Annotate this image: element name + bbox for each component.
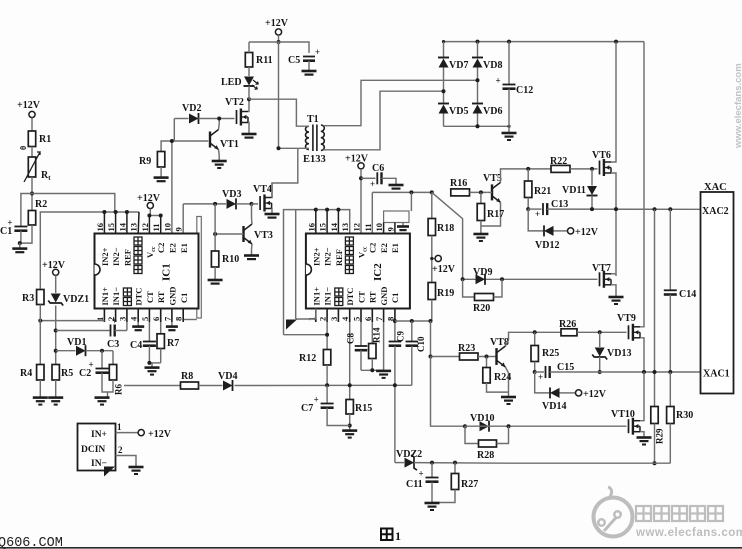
pin number 3 (IC1 bottom) — [117, 317, 127, 321]
svg-text:C5: C5 — [288, 55, 300, 66]
caption figure 1 — [381, 529, 401, 544]
svg-text:R21: R21 — [534, 186, 551, 197]
wire pin6 to R14 — [371, 322, 373, 344]
wire VT7 drain — [611, 273, 616, 275]
pin number 13 (IC2 top) — [340, 223, 350, 232]
svg-text:R4: R4 — [20, 368, 32, 379]
node C11 top — [430, 461, 434, 465]
capacitor C5 — [288, 47, 320, 66]
wire VT9 source — [640, 338, 644, 372]
svg-text:9: 9 — [385, 227, 395, 231]
svg-text:R7: R7 — [167, 338, 179, 349]
svg-text:10: 10 — [374, 223, 384, 232]
wire VT1 collector — [218, 119, 221, 130]
wire VT1 emitter — [218, 150, 221, 161]
pin number 8 (IC2 bottom) — [385, 317, 395, 321]
wire VD10 feed — [431, 357, 466, 427]
svg-text:C3: C3 — [107, 339, 119, 350]
resistor R18 — [428, 219, 454, 236]
capacitor C13 — [535, 199, 568, 219]
node IC2 pin16 bus — [314, 208, 318, 212]
node VD1/C2 — [100, 349, 104, 353]
svg-text:C10: C10 — [416, 336, 426, 352]
svg-text:VD8: VD8 — [483, 60, 502, 71]
wire VT7 gate row — [463, 278, 598, 280]
wire C14 col — [669, 209, 671, 289]
capacitor C2 — [79, 360, 109, 380]
ground (VT3) — [244, 256, 259, 260]
ground (DCIN) — [129, 467, 144, 474]
wire — [349, 414, 351, 430]
wire — [554, 230, 568, 232]
pin number 6 (IC2 bottom) — [363, 317, 373, 321]
resistor R10 — [211, 251, 239, 267]
svg-text:13: 13 — [129, 223, 139, 232]
caption Q606.COM — [0, 536, 63, 549]
watermark logo — [594, 487, 633, 537]
ground (IC1 pin4) — [132, 327, 144, 331]
svg-text:IN2−: IN2− — [323, 247, 333, 266]
svg-text:C4: C4 — [130, 340, 142, 351]
wire R30 col — [669, 372, 671, 407]
svg-text:C13: C13 — [551, 199, 568, 210]
wire pin 4 stub (IC1 bottom) — [137, 309, 139, 323]
resistor R26 — [559, 319, 577, 336]
svg-text:IN2−: IN2− — [111, 247, 121, 266]
svg-text:VD6: VD6 — [483, 106, 502, 117]
svg-text:R16: R16 — [450, 178, 467, 189]
wire T1 primary top to VT2 — [249, 99, 309, 126]
svg-text:θ: θ — [19, 146, 28, 150]
svg-text:R10: R10 — [222, 254, 239, 265]
resistor R15 — [346, 400, 372, 415]
wire pin 3 stub (IC2 bottom) — [337, 309, 339, 323]
ground (pin7 GND) — [376, 371, 391, 378]
node R23 left — [429, 355, 433, 359]
svg-text:R29: R29 — [655, 428, 665, 444]
wire — [214, 267, 216, 280]
svg-text:13: 13 — [340, 223, 350, 232]
transistor VT9 (MOSFET) — [617, 313, 640, 341]
svg-text:11: 11 — [363, 223, 373, 231]
transistor VT6 (MOSFET) — [592, 150, 611, 176]
wire — [248, 42, 250, 70]
svg-text:+12V: +12V — [42, 260, 66, 271]
wire — [308, 61, 310, 71]
capacitor C10 — [406, 336, 427, 352]
node C15 left — [533, 370, 537, 374]
svg-text:DTC: DTC — [345, 288, 355, 306]
wire +12V to pins 12,11 — [149, 209, 160, 216]
wire — [443, 114, 445, 127]
transistor VT7 (MOSFET) — [592, 263, 611, 288]
wire pin14 stub — [337, 210, 339, 234]
svg-text:VT10: VT10 — [611, 409, 635, 420]
diode VD5 — [438, 104, 468, 118]
svg-text:7: 7 — [374, 316, 384, 321]
wire pin7 ground — [171, 322, 173, 326]
wire — [55, 275, 57, 293]
resistor R11 — [245, 53, 272, 68]
wire — [394, 346, 396, 463]
svg-text:IN2+: IN2+ — [311, 247, 321, 266]
wire — [199, 118, 235, 120]
node C4/R7 — [147, 361, 151, 365]
resistor R5 — [52, 365, 73, 381]
power +12V terminal (top) — [265, 18, 289, 35]
resistor R20 loop — [463, 279, 502, 314]
wire loop IC1 right side — [183, 217, 201, 320]
diode VD1 — [67, 337, 86, 356]
thermistor Rt — [19, 146, 51, 182]
svg-text:+12V: +12V — [575, 227, 599, 238]
wire pin16 stub — [103, 212, 105, 234]
node R12 top — [325, 333, 329, 337]
wire — [31, 118, 33, 131]
node rail/VD8 — [476, 40, 480, 44]
diode VD8 — [472, 58, 502, 72]
pin number 9 (IC2 top) — [385, 227, 395, 231]
wire C3 row — [56, 330, 110, 332]
svg-text:R18: R18 — [437, 223, 454, 234]
node VD9 left — [461, 277, 465, 281]
wire — [414, 462, 509, 465]
svg-text:2: 2 — [318, 317, 328, 321]
wire R29 col — [654, 209, 656, 406]
svg-text:VT2: VT2 — [225, 97, 244, 108]
node pin11 — [159, 214, 163, 218]
svg-text:R11: R11 — [256, 55, 273, 66]
node R29 bottom — [653, 461, 657, 465]
svg-text:12: 12 — [140, 223, 150, 232]
svg-text:3: 3 — [329, 317, 339, 321]
node VDZ1/VD1 — [54, 349, 58, 353]
wire C8/R14 row — [361, 369, 384, 371]
wire — [487, 383, 509, 397]
pin number 10 (IC1 top) — [162, 223, 172, 232]
wire — [115, 322, 127, 331]
node A (R2 top junction) — [30, 192, 34, 196]
wire — [55, 380, 57, 397]
svg-text:IN1−: IN1− — [323, 287, 333, 306]
transistor VT1 — [210, 130, 239, 151]
wire VT6 drain — [611, 42, 616, 162]
wire — [360, 169, 362, 234]
op-amp IC2 (TL494 PWM controller) — [306, 234, 410, 309]
wire — [480, 221, 482, 234]
pin number 4 (IC2 bottom) — [340, 316, 350, 321]
node XAC2/R29 — [653, 207, 657, 211]
capacitor C4 — [130, 340, 156, 351]
ground flag (IC2 pin1) — [286, 309, 316, 330]
svg-text:+: + — [112, 316, 117, 326]
svg-text:GND: GND — [168, 287, 178, 306]
capacitor C8 — [346, 333, 368, 351]
svg-text:R24: R24 — [494, 372, 511, 383]
node IC2 pin14 bus — [336, 208, 340, 212]
wire — [470, 191, 488, 193]
svg-text:VD7: VD7 — [449, 60, 468, 71]
diode VD12 — [535, 225, 559, 251]
svg-text:DTC: DTC — [134, 288, 144, 306]
node rail/VT6 — [614, 40, 618, 44]
ground (VT10) — [637, 438, 652, 445]
wire — [236, 203, 252, 205]
svg-text:IC1: IC1 — [161, 263, 173, 281]
capacitor C14 — [664, 289, 696, 300]
wire pin 6 stub (IC2 bottom) — [371, 309, 373, 323]
wire VT10 source — [640, 432, 644, 437]
svg-text:VT8: VT8 — [490, 337, 509, 348]
svg-text:E2: E2 — [379, 243, 389, 253]
transistor VT8 — [490, 337, 509, 367]
wire — [382, 178, 397, 184]
ground (VT7) — [609, 297, 624, 304]
wire — [102, 373, 108, 392]
svg-text:E1: E1 — [179, 243, 189, 253]
wire pin15 stub — [115, 212, 117, 234]
node C14/XAC1 — [668, 370, 672, 374]
svg-text:R19: R19 — [437, 288, 454, 299]
border bottom line — [0, 547, 742, 549]
svg-text:VT4: VT4 — [253, 184, 272, 195]
node R18 top — [430, 190, 434, 194]
svg-text:VD14: VD14 — [542, 401, 566, 412]
wire pin10 stub — [383, 223, 385, 234]
wire IC2 left second — [295, 210, 297, 319]
node VD13/XAC1 — [598, 370, 602, 374]
node C10 top — [410, 319, 414, 323]
ground (R10) — [208, 280, 223, 284]
wire — [149, 349, 160, 363]
wire — [160, 167, 162, 177]
svg-text:5: 5 — [352, 317, 362, 321]
diode VD11 — [562, 169, 598, 209]
node +12V rail — [277, 40, 281, 44]
power +12V terminal (top-left) — [17, 100, 41, 118]
wire — [443, 68, 445, 104]
wire pin2 to R12 — [284, 322, 328, 350]
svg-text:CT: CT — [145, 291, 155, 303]
pin number 15 (IC2 top) — [318, 223, 328, 232]
power +12V terminal (VD14) — [576, 389, 607, 400]
wire DCIN pin1 — [116, 432, 139, 434]
svg-text:R6: R6 — [114, 384, 124, 395]
pin number 2 (IC1 bottom) — [106, 317, 116, 321]
wire VD2 left — [173, 119, 175, 142]
wire VT8 emitter — [505, 367, 508, 392]
ground (VT4) — [265, 214, 280, 218]
wire pin 5 stub (IC2 bottom) — [360, 309, 362, 323]
node E loop — [409, 190, 413, 194]
pin number 1 (IC1 bottom) — [95, 317, 105, 321]
svg-text:IC2: IC2 — [372, 263, 384, 281]
svg-text:C11: C11 — [406, 479, 423, 490]
wire — [39, 305, 41, 365]
svg-text:E1: E1 — [390, 243, 400, 253]
wire pin 7 stub (IC2 bottom) — [383, 309, 385, 323]
pin number 16 (IC1 top) — [95, 223, 105, 232]
svg-text:C1: C1 — [0, 226, 12, 237]
wire to pin 15 — [32, 194, 115, 213]
wire T1 primary bottom to +12V — [279, 147, 309, 149]
svg-text:C9: C9 — [395, 331, 405, 342]
wire VT3 emitter — [251, 244, 254, 255]
capacitor C1 — [0, 194, 32, 244]
pin number 7 (IC2 bottom) — [374, 316, 384, 321]
wire — [570, 168, 598, 170]
power +12V terminal (DCIN) — [138, 429, 172, 440]
svg-text:R14: R14 — [372, 327, 382, 343]
svg-text:VT7: VT7 — [592, 263, 611, 274]
wire rail — [249, 42, 309, 53]
pin number 3 (IC2 bottom) — [329, 317, 339, 321]
svg-text:C7: C7 — [301, 403, 313, 414]
svg-text:DCIN: DCIN — [81, 445, 105, 455]
svg-text:VDZ2: VDZ2 — [396, 449, 422, 460]
ground (R4) — [33, 398, 48, 405]
svg-text:RT: RT — [156, 291, 166, 303]
wire pin4 ground — [137, 322, 139, 326]
zener diode VDZ2 — [396, 449, 422, 470]
node pin8 — [393, 319, 397, 323]
node VD2/VT2 gate — [217, 117, 221, 121]
wire pin10 to VT1 base node — [171, 141, 173, 234]
wire VT2 source — [248, 123, 249, 134]
ground (IC2 E1/E2) — [397, 223, 409, 231]
wire — [508, 89, 510, 133]
svg-text:C8: C8 — [346, 333, 356, 344]
resistor R19 — [428, 283, 454, 300]
svg-text:+: + — [419, 469, 424, 479]
svg-text:+12V: +12V — [265, 18, 289, 29]
wire — [528, 208, 541, 210]
wire pin 7 stub (IC1 bottom) — [171, 309, 173, 323]
node VD7/VD5 (AC in) — [442, 89, 446, 93]
node R19/pin8 wire — [429, 319, 433, 323]
wire — [477, 114, 479, 127]
svg-text:2: 2 — [118, 445, 123, 455]
pin number 12 (IC1 top) — [140, 223, 150, 232]
wire pin11 stub — [160, 216, 162, 234]
resistor R7 — [157, 334, 179, 349]
svg-text:7: 7 — [162, 316, 172, 321]
ground (IC1 pin7 GND) — [166, 327, 178, 331]
wire — [577, 331, 627, 333]
node R10 top — [213, 202, 217, 206]
svg-text:R23: R23 — [458, 343, 475, 354]
wire VDZ2 row — [395, 462, 404, 464]
capacitor C12 — [496, 76, 534, 97]
diode VD2 — [182, 103, 201, 124]
wire R18 col — [431, 192, 433, 218]
wire — [31, 147, 33, 158]
svg-text:5: 5 — [140, 317, 150, 321]
node pin15 bus — [114, 210, 118, 214]
wire top rail — [444, 41, 645, 43]
svg-text:www.elecfans.com: www.elecfans.com — [635, 527, 742, 539]
svg-text:C1: C1 — [390, 293, 400, 303]
wire — [199, 385, 223, 387]
svg-text:6: 6 — [151, 317, 161, 321]
wire R6 drop — [112, 351, 114, 365]
svg-text:R27: R27 — [461, 479, 478, 490]
wire — [431, 356, 460, 358]
node R21 top — [526, 167, 530, 171]
wire — [20, 225, 32, 243]
node pin14 bus — [125, 210, 129, 214]
svg-text:C1: C1 — [179, 293, 189, 303]
svg-text:1: 1 — [117, 422, 122, 432]
wire pin7 down — [383, 322, 385, 370]
svg-text:+: + — [370, 179, 375, 189]
wire pin 6 stub (IC1 bottom) — [160, 309, 162, 323]
wire pin9 stub — [394, 223, 396, 234]
node R3 bottom — [38, 319, 42, 323]
pin number 2 (DCIN) — [118, 445, 123, 455]
wire pin5 to C4 — [148, 322, 150, 341]
svg-text:15: 15 — [318, 223, 328, 232]
wire VT10 drain — [640, 372, 644, 421]
wire DCIN pin2 — [116, 456, 137, 467]
wire T1 secondary top — [323, 80, 477, 125]
wire pin12 stub — [148, 216, 150, 234]
wire VD7 col — [443, 42, 445, 58]
node VT9/VT10/XAC1 — [642, 370, 646, 374]
svg-text:R30: R30 — [676, 410, 693, 421]
svg-text:R8: R8 — [181, 371, 193, 382]
wire XAC2 line — [547, 208, 700, 210]
svg-text:R1: R1 — [39, 134, 51, 145]
diode VD3 — [222, 189, 241, 209]
wire — [151, 363, 153, 367]
diode VD14 — [542, 387, 566, 412]
diode VD7 — [438, 58, 468, 72]
diode VD10 — [470, 413, 494, 432]
diode VD6 — [472, 104, 502, 118]
power +12V terminal (IC1 Vcc) — [137, 193, 161, 209]
node VD13 top — [598, 330, 602, 334]
svg-text:+: + — [535, 209, 540, 219]
svg-text:VD5: VD5 — [449, 106, 468, 117]
resistor R29 — [651, 407, 665, 445]
ground (VT8/R24) — [501, 397, 516, 404]
wire bus IC1 top — [40, 212, 139, 290]
power +12V terminal (IC2 Vcc) — [345, 154, 369, 169]
svg-text:16: 16 — [95, 223, 105, 232]
node VD10 right — [507, 424, 511, 428]
ground (R5) — [48, 398, 63, 405]
svg-text:VT9: VT9 — [617, 313, 636, 324]
node (C1/R2 bottom) — [18, 241, 22, 245]
node T1 primary bottom — [277, 146, 281, 150]
LED — [221, 70, 258, 99]
wire XAC1 line — [550, 371, 701, 373]
wire VD14 col — [535, 372, 550, 393]
op-amp IC1 (TL494 PWM controller) — [95, 234, 199, 309]
svg-text:RT: RT — [368, 291, 378, 303]
connector DCIN — [78, 424, 116, 471]
node VT6/VT7/XAC2 — [614, 207, 618, 211]
wire pin15 stub — [326, 210, 328, 234]
svg-text:R25: R25 — [542, 348, 559, 359]
svg-text:9: 9 — [174, 227, 184, 231]
transformer T1 (E133) — [303, 114, 326, 165]
pin number 5 (IC2 bottom) — [352, 317, 362, 321]
resistor R27 — [432, 463, 478, 503]
svg-text:VD2: VD2 — [182, 103, 201, 114]
pin number 10 (IC2 top) — [374, 223, 384, 232]
